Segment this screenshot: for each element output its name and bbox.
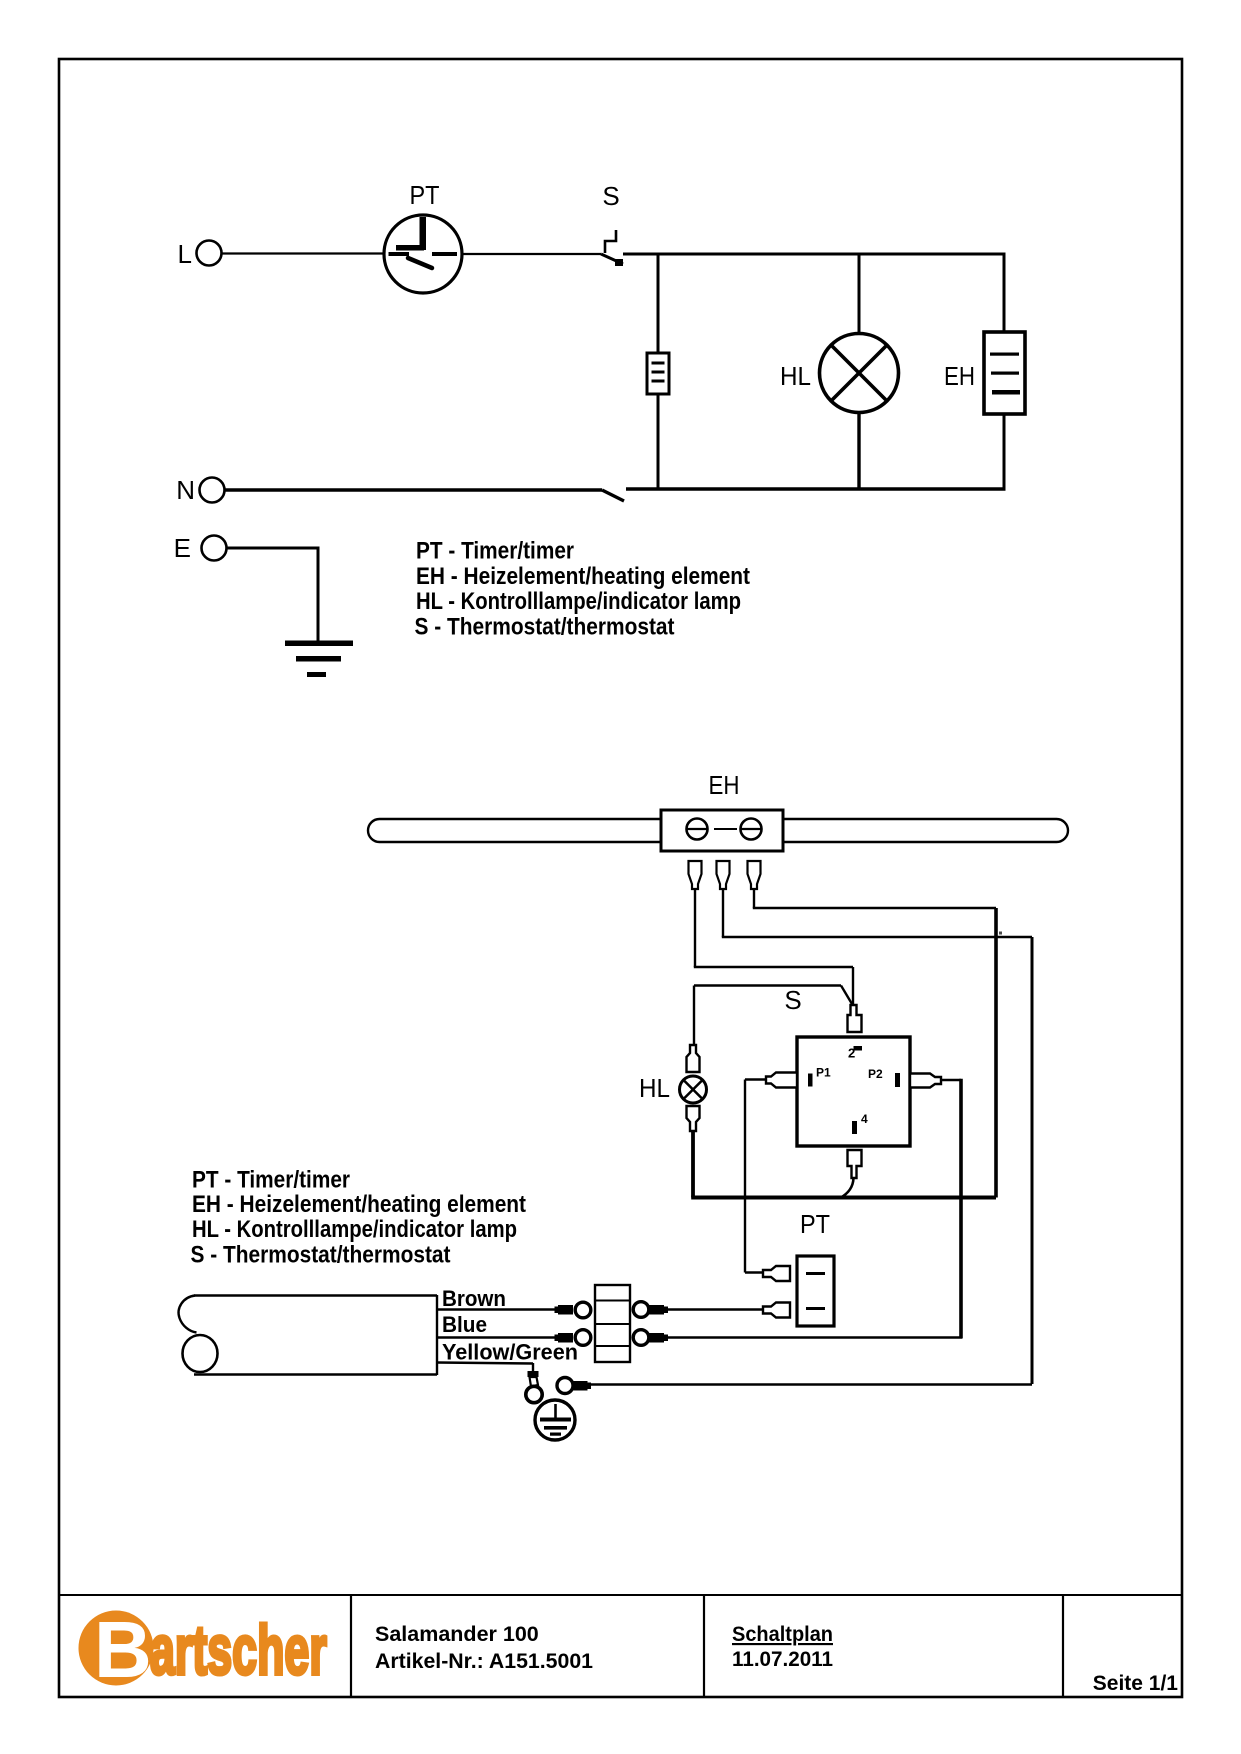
S bottom pin connector — [848, 1150, 862, 1178]
timer PT box — [797, 1256, 834, 1326]
wire label Brown — [442, 1286, 506, 1311]
svg-text:Schaltplan: Schaltplan — [732, 1622, 833, 1646]
svg-text:Seite 1/1: Seite 1/1 — [1093, 1672, 1179, 1695]
svg-text:Blue: Blue — [442, 1312, 487, 1337]
footer Seite 1/1 — [1093, 1672, 1179, 1695]
legend block 2 — [191, 1167, 527, 1269]
indicator lamp HL label — [780, 361, 811, 391]
wire label Blue — [442, 1312, 487, 1337]
wire N — [225, 488, 603, 491]
wire EH pin1 to S top — [694, 889, 853, 1004]
S left pin connector — [766, 1073, 797, 1088]
svg-text:Brown: Brown — [442, 1286, 506, 1311]
stray scan dot — [999, 932, 1002, 935]
svg-text:S - Thermostat/thermostat: S - Thermostat/thermostat — [191, 1242, 451, 1269]
svg-text:EH: EH — [944, 361, 975, 391]
wire E — [227, 547, 319, 644]
legend block 1 — [415, 538, 751, 641]
supply cable — [179, 1295, 437, 1375]
footer Schaltplan — [732, 1622, 833, 1671]
S pin label P1 — [816, 1066, 831, 1080]
PT bottom pin connector — [763, 1303, 790, 1318]
indicator lamp HL label (wiring) — [639, 1073, 670, 1103]
svg-text:4: 4 — [861, 1112, 868, 1126]
wire S right pin to blue wire — [941, 1079, 961, 1338]
svg-text:E: E — [174, 533, 191, 563]
wire top bus — [623, 253, 1006, 256]
S pin label P2 — [868, 1067, 883, 1081]
wire HL branch lower — [857, 413, 860, 490]
thermostat switch S — [601, 230, 623, 266]
S pin bar P2 — [895, 1073, 900, 1087]
svg-text:2: 2 — [848, 1046, 855, 1061]
svg-text:Artikel-Nr.: A151.5001: Artikel-Nr.: A151.5001 — [375, 1649, 593, 1673]
svg-text:S: S — [784, 985, 801, 1015]
svg-text:N: N — [176, 475, 195, 505]
ring terminal brown left — [555, 1302, 591, 1318]
svg-text:L: L — [178, 239, 192, 269]
svg-text:PT: PT — [410, 180, 440, 210]
wire blue from cable — [437, 1336, 559, 1338]
svg-text:artscher: artscher — [150, 1612, 327, 1689]
svg-text:P2: P2 — [868, 1067, 883, 1081]
svg-text:S: S — [602, 181, 619, 211]
S pin bar 4 — [852, 1121, 857, 1134]
wire branch junction x658 lower — [657, 394, 660, 489]
S pin label 4 — [861, 1112, 868, 1126]
Bartscher logo — [79, 1605, 327, 1694]
svg-text:PT - Timer/timer: PT - Timer/timer — [416, 538, 574, 565]
heating element tube EH — [368, 810, 1068, 851]
svg-text:HL: HL — [639, 1073, 670, 1103]
terminal E — [174, 533, 227, 563]
svg-text:Yellow/Green: Yellow/Green — [442, 1340, 578, 1365]
connector block (small component) — [647, 353, 669, 394]
heating element EH label — [944, 361, 975, 391]
svg-text:PT - Timer/timer: PT - Timer/timer — [192, 1167, 350, 1194]
indicator lamp HL — [820, 334, 899, 413]
terminal block — [595, 1285, 630, 1362]
wire label Yellow/Green — [442, 1340, 578, 1365]
S pin mark 2 — [848, 1046, 862, 1061]
heating element EH label (wiring) — [709, 770, 740, 800]
ring terminal brown right — [633, 1302, 668, 1318]
wire brown to PT bottom — [663, 1308, 763, 1310]
heating element EH — [984, 332, 1025, 414]
HL top pin connector — [687, 1045, 700, 1072]
PT top pin connector — [763, 1266, 790, 1281]
svg-text:PT: PT — [800, 1209, 830, 1239]
wire blue to S right vertical — [668, 1336, 963, 1338]
HL bottom pin connector — [687, 1106, 700, 1131]
svg-text:B: B — [94, 1605, 152, 1694]
earth ring terminal — [557, 1378, 591, 1394]
svg-text:EH - Heizelement/heating eleme: EH - Heizelement/heating element — [192, 1191, 526, 1218]
ring terminal blue right — [633, 1330, 668, 1346]
wire L to PT — [222, 252, 385, 254]
wire PT to S — [462, 253, 601, 255]
svg-text:P1: P1 — [816, 1066, 831, 1080]
wire S bottom pin to bottom bus — [840, 1178, 854, 1198]
svg-text:EH: EH — [709, 770, 740, 800]
wire HL bottom to bottom bus — [691, 1131, 996, 1198]
timer PT label (wiring) — [800, 1209, 830, 1239]
thermostat S label — [602, 181, 619, 211]
yellow/green crimp connector — [528, 1371, 539, 1387]
wire HL branch upper — [858, 254, 861, 334]
wire EH pin3 to bottom bus — [753, 889, 996, 1198]
ground symbol — [285, 641, 353, 678]
switch contact on N wire — [602, 490, 624, 501]
wire HL top — [694, 986, 852, 1045]
svg-text:HL - Kontrolllampe/indicator l: HL - Kontrolllampe/indicator lamp — [416, 588, 741, 615]
footer table lines — [59, 1595, 1182, 1696]
thermostat S label (wiring) — [784, 985, 801, 1015]
S top pin connector — [848, 1005, 862, 1032]
yellow/green ring terminal — [526, 1386, 542, 1402]
S pin bar P1 — [808, 1074, 813, 1087]
svg-text:S - Thermostat/thermostat: S - Thermostat/thermostat — [415, 614, 675, 641]
wire branch junction x658 upper — [657, 254, 660, 353]
svg-text:HL - Kontrolllampe/indicator l: HL - Kontrolllampe/indicator lamp — [192, 1216, 517, 1243]
wire yellow/green from cable — [437, 1363, 533, 1374]
timer PT (clock symbol) — [384, 215, 462, 293]
terminal L — [178, 239, 222, 269]
EH pin connector 1 — [689, 861, 702, 889]
wire EH branch upper — [1003, 254, 1006, 332]
thermostat S box — [797, 1037, 910, 1146]
indicator lamp HL (wiring) — [680, 1076, 707, 1103]
S right pin connector — [910, 1074, 941, 1088]
wire EH branch lower — [1003, 414, 1006, 489]
svg-text:HL: HL — [780, 361, 811, 391]
protective earth symbol — [535, 1400, 575, 1440]
wire brown from cable — [437, 1308, 559, 1310]
svg-text:EH - Heizelement/heating eleme: EH - Heizelement/heating element — [416, 563, 750, 590]
svg-text:Salamander 100: Salamander 100 — [375, 1622, 539, 1646]
svg-text:11.07.2011: 11.07.2011 — [732, 1647, 833, 1671]
wire S left pin to PT top — [745, 1080, 766, 1273]
timer PT label — [410, 180, 440, 210]
EH pin connector 3 — [748, 861, 761, 889]
ring terminal blue left — [555, 1330, 591, 1346]
EH pin connector 2 — [717, 861, 730, 889]
wire EH pin2 to earth ring — [588, 889, 1032, 1385]
terminal N — [176, 475, 224, 505]
footer title Salamander 100 — [375, 1622, 593, 1673]
wire bottom bus — [626, 487, 1006, 490]
